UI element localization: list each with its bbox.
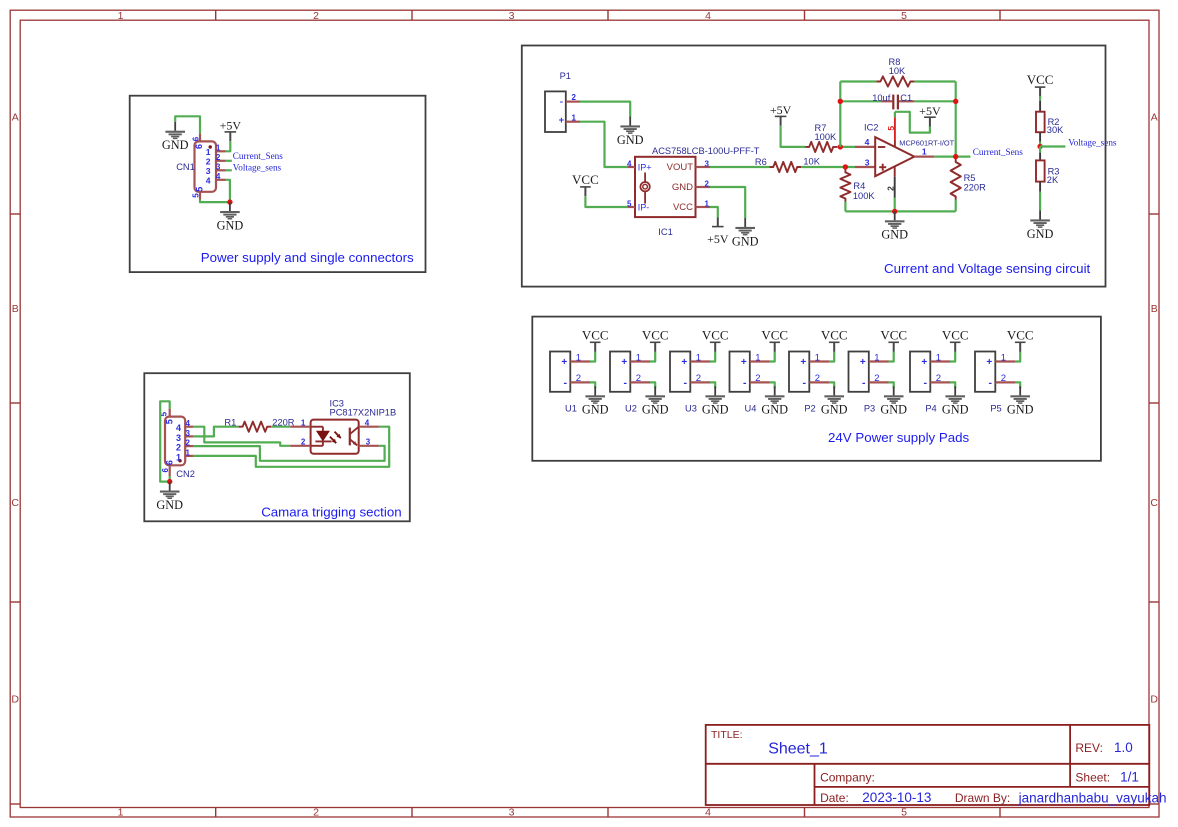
svg-text:5: 5 xyxy=(901,807,907,819)
svg-text:3: 3 xyxy=(705,159,710,168)
section box: 24V Power supply Pads xyxy=(532,317,1101,461)
connector CN1 pins 1-4 stubs xyxy=(216,151,226,180)
power symbol VCC (U3) xyxy=(702,327,729,351)
svg-text:-: - xyxy=(802,377,806,389)
connector CN2 pin 5 stub xyxy=(169,409,171,417)
svg-text:+: + xyxy=(621,357,627,368)
wire C1 right rail xyxy=(914,100,955,102)
label P1 xyxy=(560,71,571,81)
ground symbol GND (P1) xyxy=(617,117,644,147)
svg-text:GND: GND xyxy=(642,403,669,417)
label R3 xyxy=(1048,167,1060,177)
wire +5V to R7 xyxy=(781,126,806,147)
net label Voltage_sens (divider) xyxy=(1068,138,1117,148)
IC3 LED (emitting diode) xyxy=(315,431,331,441)
svg-text:1: 1 xyxy=(216,144,221,153)
wire output right vertical xyxy=(955,82,957,157)
wire ground rail xyxy=(845,210,955,212)
op-amp pin number 3 xyxy=(865,157,870,167)
svg-text:1: 1 xyxy=(118,10,124,22)
svg-text:GND: GND xyxy=(156,498,183,512)
svg-text:6: 6 xyxy=(161,468,170,473)
wire R1 to IC3 pin1 xyxy=(271,426,290,428)
svg-text:1: 1 xyxy=(755,352,760,363)
title block text 1/1 xyxy=(1120,770,1139,785)
svg-text:+5V: +5V xyxy=(220,119,242,133)
svg-text:5: 5 xyxy=(886,126,896,131)
svg-text:3: 3 xyxy=(509,10,515,22)
svg-text:GND: GND xyxy=(880,403,907,417)
title block label Date: xyxy=(820,791,849,805)
op-amp pin number 2 (rotated) xyxy=(885,186,895,191)
svg-text:10uf: 10uf xyxy=(872,93,891,103)
net label Current_Sens (output) xyxy=(973,147,1023,157)
svg-text:-: - xyxy=(862,377,866,389)
IC1 body xyxy=(635,157,696,217)
ground symbol GND (below CN1) xyxy=(217,202,244,232)
svg-text:CN2: CN2 xyxy=(176,469,195,479)
svg-text:1: 1 xyxy=(705,199,710,208)
wire CN2 pin6 to ground junction xyxy=(169,476,171,482)
IC3 phototransistor base xyxy=(349,428,351,446)
label IC1 xyxy=(658,227,672,237)
junction (C1 right) xyxy=(953,99,958,104)
svg-text:Date:: Date: xyxy=(820,791,849,805)
ground symbol GND (P4) xyxy=(942,386,969,416)
resistor R2 top lead xyxy=(1039,101,1041,112)
svg-text:100K: 100K xyxy=(815,132,838,142)
op-amp plus input mark xyxy=(879,164,886,171)
wire IC1 GND pin to ground xyxy=(710,187,745,218)
wire feedback left vertical xyxy=(839,82,841,147)
svg-text:IP-: IP- xyxy=(638,202,650,212)
label P3 xyxy=(864,404,875,414)
svg-text:+5V: +5V xyxy=(919,104,941,118)
IC3 LED anode path xyxy=(311,427,323,432)
connector CN1 body xyxy=(195,141,217,191)
svg-text:VCC: VCC xyxy=(702,327,729,342)
svg-text:GND: GND xyxy=(881,228,908,242)
svg-text:-: - xyxy=(923,377,927,389)
label CN1 xyxy=(176,162,195,172)
wire R2 to Voltage_sens node xyxy=(1039,142,1041,147)
svg-text:5: 5 xyxy=(627,199,632,208)
wire CN2 pin3 to R1 xyxy=(193,427,239,437)
label U1 xyxy=(565,404,577,414)
title block text janardhanbabu_vayukah xyxy=(1018,790,1167,805)
IC1 pin name GND xyxy=(672,182,693,193)
svg-text:2: 2 xyxy=(176,443,181,453)
svg-text:Company:: Company: xyxy=(820,770,875,784)
svg-text:Current_Sens: Current_Sens xyxy=(973,147,1023,157)
label R8 xyxy=(889,57,901,67)
label 10K (R8 value) xyxy=(889,66,906,76)
title block label Sheet: xyxy=(1075,771,1110,785)
label PC817X2NIP1B (IC3 value) xyxy=(330,408,397,418)
caption Camara trigging section xyxy=(261,504,401,519)
svg-text:3: 3 xyxy=(509,807,515,819)
svg-text:TITLE:: TITLE: xyxy=(711,729,743,741)
IC3 light arrows xyxy=(330,432,341,444)
op-amp minus input mark xyxy=(878,146,885,148)
svg-text:1: 1 xyxy=(696,352,701,363)
svg-text:CN1: CN1 xyxy=(176,162,195,172)
junction (ground rail) xyxy=(892,209,897,214)
net label Current_Sens xyxy=(233,151,283,161)
junction (Voltage_sens node) xyxy=(1037,144,1042,149)
ground symbol GND (top left) xyxy=(162,122,189,152)
svg-text:IC2: IC2 xyxy=(864,122,878,132)
label 220R (R1 value) xyxy=(272,417,295,427)
IC3 LED cathode path xyxy=(311,441,323,445)
svg-text:IP+: IP+ xyxy=(638,162,652,172)
label R6 xyxy=(755,157,767,167)
svg-text:2: 2 xyxy=(186,439,191,448)
svg-text:10K: 10K xyxy=(889,66,906,76)
IC3 pin 4 stub xyxy=(359,426,379,428)
label ACS758LCB-100U-PFF-T (IC1 value) xyxy=(652,146,760,156)
wire feedback top-left to R8 xyxy=(840,80,876,82)
wire Voltage_sens xyxy=(1040,145,1065,147)
power symbol VCC (P4) xyxy=(942,327,969,351)
title block label REV: xyxy=(1075,741,1103,755)
svg-text:2: 2 xyxy=(755,373,760,384)
IC1 pin 5 stub xyxy=(628,206,635,208)
label P4 xyxy=(925,404,936,414)
wire IC1 VOUT to R6 xyxy=(710,166,769,168)
svg-text:B: B xyxy=(1151,303,1158,315)
pad connector U4 body, pins and wires xyxy=(730,351,775,391)
svg-text:3: 3 xyxy=(176,433,181,443)
label P5 xyxy=(990,404,1001,414)
power symbol VCC (U4) xyxy=(761,327,788,351)
svg-text:+: + xyxy=(559,115,565,126)
ground symbol GND (P5) xyxy=(1007,386,1034,416)
svg-text:U2: U2 xyxy=(625,404,637,414)
label 10uf (C1 value) xyxy=(872,93,891,103)
power symbol VCC (divider) xyxy=(1027,72,1054,96)
svg-text:P4: P4 xyxy=(925,404,936,414)
svg-text:5: 5 xyxy=(164,419,174,424)
wire CN1 pin4 to ground junction xyxy=(226,180,230,202)
resistor R1 xyxy=(239,422,272,432)
op-amp pin 5 line xyxy=(894,112,896,147)
wire IC1 VCC pin to +5V xyxy=(710,207,718,218)
wire R6 to op-amp non-inverting node xyxy=(801,166,855,168)
ground symbol GND (divider) xyxy=(1027,211,1054,241)
P1 pin number 1 xyxy=(572,113,577,122)
svg-text:-: - xyxy=(559,96,563,108)
svg-text:5: 5 xyxy=(194,187,204,192)
CN1 pin 5 stub xyxy=(199,192,201,200)
svg-text:2: 2 xyxy=(636,373,641,384)
svg-text:VCC: VCC xyxy=(1027,72,1054,87)
connector CN2 pins 4-1 stubs xyxy=(185,427,193,456)
svg-text:PC817X2NIP1B: PC817X2NIP1B xyxy=(330,408,397,418)
IC3 pin number 3 xyxy=(366,438,371,447)
svg-text:R1: R1 xyxy=(224,417,236,427)
svg-text:+: + xyxy=(561,357,567,368)
resistor R8 xyxy=(876,76,914,86)
svg-text:GND: GND xyxy=(672,182,693,193)
op-amp pin number 1 xyxy=(922,146,927,156)
op-amp pin 4 stub xyxy=(855,146,875,148)
svg-text:5: 5 xyxy=(901,10,907,22)
label CN2 xyxy=(176,469,195,479)
label U2 xyxy=(625,404,637,414)
svg-text:VCC: VCC xyxy=(761,327,788,342)
svg-text:1: 1 xyxy=(636,352,641,363)
svg-text:1: 1 xyxy=(922,146,927,156)
op-amp output stub (pin 1) xyxy=(914,156,934,158)
svg-text:1.0: 1.0 xyxy=(1114,740,1133,755)
svg-text:A: A xyxy=(12,112,19,124)
op-amp pin 2 line xyxy=(894,167,896,198)
svg-text:Voltage_sens: Voltage_sens xyxy=(1068,138,1117,148)
IC1 pin name VCC xyxy=(673,202,693,213)
svg-text:-: - xyxy=(683,377,687,389)
IC1 current sensor symbol xyxy=(640,173,649,204)
label R1 xyxy=(224,417,236,427)
capacitor C1 right lead xyxy=(899,100,915,102)
label R7 xyxy=(815,123,827,133)
title block text 1.0 xyxy=(1114,740,1133,755)
label 220R (R5 value) xyxy=(964,182,987,192)
IC3 pin number 4 xyxy=(365,419,370,428)
pad connector U3 body, pins and wires xyxy=(670,351,715,391)
svg-text:1: 1 xyxy=(874,352,879,363)
svg-text:P5: P5 xyxy=(990,404,1001,414)
IC1 pin 3 stub (VOUT) xyxy=(696,166,711,168)
resistor R2 bottom lead xyxy=(1039,132,1041,141)
svg-text:4: 4 xyxy=(705,10,711,22)
IC1 pin number 3 xyxy=(705,159,710,168)
svg-text:6: 6 xyxy=(194,144,204,149)
title block text Sheet_1 xyxy=(768,741,828,758)
CN2 pin numbers (at stubs) xyxy=(186,419,191,457)
label 10K (R6 value) xyxy=(803,157,820,167)
IC3 pin number 1 xyxy=(301,419,306,428)
wire CN1 pin5 to ground junction xyxy=(200,200,230,203)
pad connector U1 body, pins and wires xyxy=(550,351,595,391)
wire P1 pin1 to IC1 IP+ xyxy=(580,122,628,167)
svg-text:6: 6 xyxy=(191,136,200,141)
wire R5 to ground rail xyxy=(955,200,957,212)
connector CN1 pin-1 marker dot xyxy=(209,145,212,148)
ground symbol GND (CN2) xyxy=(156,482,183,512)
svg-text:+5V: +5V xyxy=(707,232,729,246)
svg-text:100K: 100K xyxy=(853,191,876,201)
resistor R3 (box style) xyxy=(1036,160,1045,181)
svg-text:Voltage_sens: Voltage_sens xyxy=(233,163,282,173)
svg-text:2: 2 xyxy=(1001,373,1006,384)
svg-text:GND: GND xyxy=(1007,403,1034,417)
CN2 pin 6 labels (rotated) xyxy=(161,460,174,472)
IC3 phototransistor collector xyxy=(350,427,359,435)
svg-text:4: 4 xyxy=(627,159,632,168)
wire VCC to IC1 IP- xyxy=(585,196,627,207)
svg-text:-: - xyxy=(623,377,627,389)
label C1 xyxy=(900,93,912,103)
svg-text:GND: GND xyxy=(162,138,189,152)
svg-text:P2: P2 xyxy=(804,404,815,414)
pad connector P2 body, pins and wires xyxy=(789,351,834,391)
svg-text:R4: R4 xyxy=(853,181,865,191)
P1 pin number 2 xyxy=(572,93,577,102)
ground symbol GND (U4) xyxy=(761,386,788,416)
resistor R4 xyxy=(840,169,850,201)
svg-text:+: + xyxy=(860,357,866,368)
svg-text:C1: C1 xyxy=(900,93,912,103)
svg-text:+: + xyxy=(921,357,927,368)
label 100K (R4 value) xyxy=(853,191,876,201)
power symbol VCC (U1) xyxy=(582,327,609,351)
svg-text:ACS758LCB-100U-PFF-T: ACS758LCB-100U-PFF-T xyxy=(652,146,760,156)
ground symbol GND (U1) xyxy=(582,386,609,416)
connector P1 body xyxy=(545,91,566,132)
P1 minus sign xyxy=(559,96,563,108)
wire VCC to R2 xyxy=(1039,96,1041,101)
wire +5V to CN1 pin1 xyxy=(226,141,231,151)
ground symbol GND (U2) xyxy=(642,386,669,416)
svg-text:VCC: VCC xyxy=(673,202,693,213)
label MCP601RT-I/OT (IC2 value) xyxy=(899,138,954,147)
wire CN2 pin1 to IC3 pin4 xyxy=(193,427,389,467)
section box: Current and Voltage sensing circuit xyxy=(522,46,1106,287)
junction (output node) xyxy=(953,154,958,159)
svg-text:1: 1 xyxy=(186,448,191,457)
wire pin5 to +5V xyxy=(895,112,930,133)
svg-text:2: 2 xyxy=(301,438,306,447)
op-amp IC2 triangle xyxy=(875,137,914,176)
svg-text:3: 3 xyxy=(186,429,191,438)
svg-text:Power supply and single connec: Power supply and single connectors xyxy=(201,250,414,265)
svg-text:6: 6 xyxy=(164,460,174,465)
label IC2 xyxy=(864,122,878,132)
svg-text:-: - xyxy=(743,377,747,389)
label R4 xyxy=(853,181,865,191)
wire R8 to output rail xyxy=(914,80,955,82)
label U4 xyxy=(745,404,757,414)
pad connector P4 body, pins and wires xyxy=(910,351,955,391)
P1 pin 1 stub xyxy=(566,121,580,123)
IC3 body xyxy=(311,420,359,454)
op-amp pin number 5 (rotated) xyxy=(886,126,896,131)
IC1 pin number 2 xyxy=(705,179,710,188)
power symbol VCC (IC1) xyxy=(572,172,599,196)
svg-text:4: 4 xyxy=(206,176,211,186)
ground symbol GND (P3) xyxy=(880,386,907,416)
svg-text:30K: 30K xyxy=(1047,125,1064,135)
P1 plus sign xyxy=(559,115,565,126)
svg-text:Sheet:: Sheet: xyxy=(1075,771,1110,785)
svg-text:220R: 220R xyxy=(964,182,987,192)
svg-text:-: - xyxy=(988,377,992,389)
IC1 pin number 5 xyxy=(627,199,632,208)
svg-text:U3: U3 xyxy=(685,404,697,414)
svg-text:P3: P3 xyxy=(864,404,875,414)
resistor R6 xyxy=(769,162,801,172)
frame row labels A-D xyxy=(11,112,1158,706)
svg-text:2: 2 xyxy=(815,373,820,384)
svg-text:+: + xyxy=(800,357,806,368)
svg-text:3: 3 xyxy=(366,438,371,447)
svg-text:2: 2 xyxy=(576,373,581,384)
svg-text:VCC: VCC xyxy=(572,172,599,187)
svg-text:VCC: VCC xyxy=(880,327,907,342)
svg-text:VCC: VCC xyxy=(942,327,969,342)
svg-text:GND: GND xyxy=(732,234,759,248)
wire P1 pin2 to GND xyxy=(580,102,630,117)
ground symbol GND (op-amp) xyxy=(881,211,908,241)
op-amp pin number 4 xyxy=(865,137,870,147)
CN2 pad names (inside) xyxy=(176,423,181,462)
svg-text:1: 1 xyxy=(576,352,581,363)
label 2K (R3 value) xyxy=(1047,175,1059,185)
wire pin2 to ground rail xyxy=(894,198,896,212)
pad connector P3 body, pins and wires xyxy=(849,351,894,391)
CN2 pin 6 stub xyxy=(169,465,171,476)
svg-text:1/1: 1/1 xyxy=(1120,770,1139,785)
svg-text:A: A xyxy=(1151,112,1158,124)
wire Voltage_sens node to R3 xyxy=(1039,147,1041,153)
svg-text:C: C xyxy=(1150,497,1158,509)
svg-text:D: D xyxy=(11,694,19,706)
svg-text:U4: U4 xyxy=(745,404,757,414)
svg-text:3: 3 xyxy=(865,157,870,167)
svg-text:REV:: REV: xyxy=(1075,741,1103,755)
junction (CN1 ground node) xyxy=(227,199,232,204)
resistor R3 bottom lead xyxy=(1039,182,1041,192)
ground symbol GND (IC1) xyxy=(732,218,759,248)
frame ruler ticks top and bottom xyxy=(216,10,1000,817)
IC3 pin number 2 xyxy=(301,438,306,447)
label R2 xyxy=(1048,117,1060,127)
ground symbol GND (P2) xyxy=(821,386,848,416)
IC1 pin 4 stub xyxy=(628,166,635,168)
power symbol VCC (P3) xyxy=(880,327,907,351)
svg-text:-: - xyxy=(563,377,567,389)
svg-text:1: 1 xyxy=(1001,352,1006,363)
net label Voltage_sens xyxy=(233,163,282,173)
svg-text:GND: GND xyxy=(821,403,848,417)
CN1 pin numbers 1-4 (at stubs) xyxy=(216,144,221,182)
svg-text:2: 2 xyxy=(572,93,577,102)
svg-text:GND: GND xyxy=(617,133,644,147)
op-amp pin 3 stub xyxy=(855,166,875,168)
power symbol VCC (P2) xyxy=(821,327,848,351)
svg-text:4: 4 xyxy=(365,419,370,428)
svg-text:4: 4 xyxy=(865,137,870,147)
svg-text:10K: 10K xyxy=(803,157,820,167)
svg-text:1: 1 xyxy=(176,452,181,462)
IC1 pin name VOUT xyxy=(667,162,694,173)
svg-text:VCC: VCC xyxy=(582,327,609,342)
svg-text:Current_Sens: Current_Sens xyxy=(233,151,283,161)
svg-text:+: + xyxy=(681,357,687,368)
junction (op-amp + input node) xyxy=(843,164,848,169)
svg-text:janardhanbabu_vayukah: janardhanbabu_vayukah xyxy=(1018,790,1167,805)
svg-text:3: 3 xyxy=(216,163,221,172)
svg-text:+5V: +5V xyxy=(770,103,792,117)
svg-text:MCP601RT-I/OT: MCP601RT-I/OT xyxy=(899,138,954,147)
caption Power supply and single connectors xyxy=(201,250,414,265)
power symbol VCC (U2) xyxy=(642,327,669,351)
IC1 pin name IP+ xyxy=(638,162,652,172)
wire R3 to GND xyxy=(1039,192,1041,211)
svg-text:2: 2 xyxy=(705,179,710,188)
ground symbol GND (U3) xyxy=(702,386,729,416)
